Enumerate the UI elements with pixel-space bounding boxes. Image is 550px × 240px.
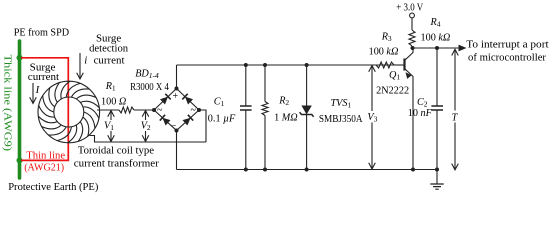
node: R2 bottom xyxy=(263,168,267,172)
node: R4/collector junction xyxy=(411,46,415,50)
wire: return up to bridge right vertex xyxy=(199,110,206,142)
arrow: T trigger xyxy=(454,50,456,170)
node: bridge left vertex xyxy=(152,108,156,112)
node: bridge right vertex xyxy=(197,108,201,112)
svg-text:(AWG21): (AWG21) xyxy=(24,161,64,173)
svg-text:R3: R3 xyxy=(381,31,392,43)
svg-text:current: current xyxy=(94,55,125,67)
node: C1 bottom xyxy=(244,168,248,172)
resistor R1 xyxy=(119,107,134,113)
TVS diode TVS1 xyxy=(306,65,308,106)
svg-text:10 nF: 10 nF xyxy=(408,108,433,119)
svg-text:SMBJ350A: SMBJ350A xyxy=(319,114,363,125)
capacitor C2 xyxy=(436,48,438,106)
svg-text:Toroidal coil type: Toroidal coil type xyxy=(78,144,154,156)
node: TVS top xyxy=(305,63,309,67)
wire: bridge top to rail xyxy=(176,65,178,89)
node: C1 top xyxy=(244,63,248,67)
svg-text:V1: V1 xyxy=(104,121,114,133)
arrow: to microcontroller port xyxy=(459,45,467,52)
node: emitter at rail xyxy=(411,168,415,172)
node: C2 at rail xyxy=(435,168,439,172)
wire: secondary top lead xyxy=(97,109,119,111)
node: PE-thin-line junction top xyxy=(17,55,23,61)
svg-text:V2: V2 xyxy=(141,121,151,133)
wire: secondary bottom lead xyxy=(90,136,207,143)
svg-text:2N2222: 2N2222 xyxy=(376,86,409,97)
svg-text:+ 3.0 V: + 3.0 V xyxy=(396,3,423,14)
svg-text:R4: R4 xyxy=(430,17,441,29)
svg-text:Q1: Q1 xyxy=(389,70,400,82)
arrow: V1 xyxy=(110,111,112,142)
svg-text:100 Ω: 100 Ω xyxy=(101,96,126,107)
wire: ground rail xyxy=(177,169,438,171)
resistor R4 xyxy=(411,18,413,30)
svg-text:1 MΩ: 1 MΩ xyxy=(274,112,298,123)
diode D3 bottom-to-left xyxy=(162,118,170,126)
svg-text:V3: V3 xyxy=(367,112,377,124)
svg-text:detection: detection xyxy=(89,42,129,54)
arrow: V2 xyxy=(145,111,147,142)
svg-text:PE from SPD: PE from SPD xyxy=(14,27,70,39)
svg-text:R3000 X 4: R3000 X 4 xyxy=(130,82,169,93)
wire: thin AWG21 surge wire through toroid (red) xyxy=(21,58,68,161)
bridge rectifier BD1-4 xyxy=(154,89,199,131)
transformer toroid core xyxy=(38,81,100,143)
transistor Q1 xyxy=(394,64,404,66)
resistor R2 xyxy=(264,65,266,102)
svg-text:~: ~ xyxy=(191,105,197,116)
svg-text:0.1 µF: 0.1 µF xyxy=(208,114,236,125)
node: TVS bottom xyxy=(305,168,309,172)
svg-text:C2: C2 xyxy=(417,97,428,109)
resistor R3 xyxy=(376,62,394,68)
diode D2 right-to-top xyxy=(185,97,193,105)
ground symbol xyxy=(436,170,438,185)
arrow: V3 xyxy=(371,66,373,170)
wire: R1 to bridge xyxy=(134,109,154,111)
svg-text:Thin line: Thin line xyxy=(26,149,65,161)
svg-text:To interrupt a port: To interrupt a port xyxy=(466,39,548,51)
node: bridge bottom vertex xyxy=(175,129,179,133)
svg-text:i: i xyxy=(84,55,87,67)
wire: thick PE line (green) xyxy=(18,41,22,178)
arrow: detection current i xyxy=(79,53,81,79)
svg-text:T: T xyxy=(452,113,459,124)
svg-text:of microcontroller: of microcontroller xyxy=(468,51,546,63)
diode D1 left-to-top xyxy=(160,97,168,105)
capacitor C1 xyxy=(245,65,247,106)
wire: top rail xyxy=(177,64,405,66)
diode D4 bottom-to-right xyxy=(183,118,191,126)
node: bridge top vertex xyxy=(175,87,179,91)
svg-text:~: ~ xyxy=(157,105,163,116)
svg-text:100 kΩ: 100 kΩ xyxy=(369,46,399,57)
svg-text:R1: R1 xyxy=(105,81,116,93)
wire: bridge bottom down xyxy=(176,131,178,170)
power terminal +3.0V xyxy=(410,13,415,18)
svg-text:current: current xyxy=(28,71,59,83)
node: R2 top xyxy=(263,63,267,67)
svg-text:TVS1: TVS1 xyxy=(331,98,352,110)
svg-text:+: + xyxy=(173,91,179,102)
svg-text:Thick line (AWG9): Thick line (AWG9) xyxy=(2,55,14,152)
arrow: surge current I xyxy=(32,83,34,103)
svg-text:100 kΩ: 100 kΩ xyxy=(421,32,451,43)
svg-text:R2: R2 xyxy=(278,96,289,108)
svg-text:I: I xyxy=(35,84,41,96)
arrow: Q1 emitter xyxy=(406,72,412,79)
wire: collector node line xyxy=(413,47,459,49)
svg-text:C1: C1 xyxy=(214,97,225,109)
svg-text:current transformer: current transformer xyxy=(74,157,159,169)
svg-text:−: − xyxy=(171,121,177,132)
svg-text:Protective Earth (PE): Protective Earth (PE) xyxy=(8,181,99,193)
node: C2 branch junction xyxy=(435,46,439,50)
svg-text:BD1-4: BD1-4 xyxy=(135,69,159,81)
node: PE-thin-line junction bottom xyxy=(17,157,23,163)
